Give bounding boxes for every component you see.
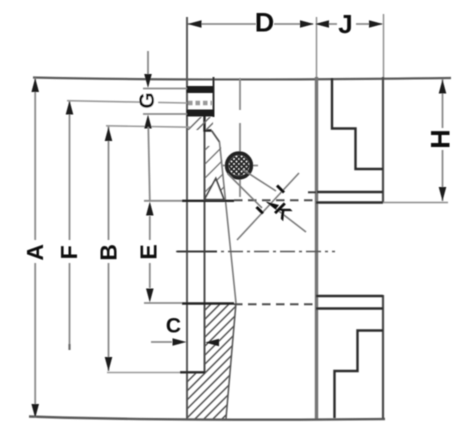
B top tick xyxy=(106,126,190,127)
socket horizontal centerline xyxy=(221,165,258,167)
C right arrow (pointing left at inner face) xyxy=(205,339,219,347)
flange back face xyxy=(186,17,188,419)
B bottom arrow xyxy=(105,357,113,371)
svg-text:F: F xyxy=(56,245,82,259)
jaw outer face lower xyxy=(382,295,384,419)
lower bore slant boundary xyxy=(226,303,236,419)
flange hatch small under boss xyxy=(182,96,222,154)
boss thread dashes xyxy=(188,101,212,106)
H dimension line xyxy=(442,79,444,128)
svg-text:G: G xyxy=(136,92,159,108)
C approach line left xyxy=(151,341,172,343)
J dimension line xyxy=(316,23,337,25)
bottom jaw step profile xyxy=(335,331,384,419)
svg-text:C: C xyxy=(166,315,181,338)
G top arrow (outside, pointing down) xyxy=(144,74,152,88)
socket circle xyxy=(227,153,252,178)
D left arrow xyxy=(188,20,202,28)
F top arrow xyxy=(66,101,74,115)
body front face xyxy=(315,77,318,419)
G bottom tick xyxy=(143,113,187,115)
body front face extension (top) xyxy=(316,17,318,78)
chamfer diagonal xyxy=(212,131,220,143)
bottom jaw base lower line xyxy=(316,307,383,309)
boss front face xyxy=(213,77,215,117)
svg-text:D: D xyxy=(255,8,275,38)
horizontal centerline xyxy=(176,251,335,253)
F dimension line xyxy=(69,101,71,241)
socket vertical centerline xyxy=(239,78,241,110)
boss bar upper xyxy=(187,86,214,93)
flange hatch lower section xyxy=(180,232,256,446)
pinion bevel triangle xyxy=(205,179,225,200)
A top arrow xyxy=(31,78,39,92)
hidden line lower dashed part xyxy=(234,303,315,305)
hidden line lower solid part xyxy=(144,302,182,304)
K dark tick on diagonal upper xyxy=(277,186,284,193)
top jaw base line left stub xyxy=(308,191,316,193)
top jaw base lower line / H bottom tick xyxy=(316,201,383,204)
E bottom arrow (pointing down) xyxy=(146,289,154,303)
step corner under boss xyxy=(205,117,212,131)
D right arrow xyxy=(300,20,314,28)
svg-text:J: J xyxy=(338,9,352,39)
jaw outer face extension (top) xyxy=(383,14,385,78)
flange hatch upper sliver xyxy=(195,115,240,216)
svg-text:B: B xyxy=(96,244,122,261)
B dimension line xyxy=(108,127,110,241)
hidden line upper solid part xyxy=(144,200,182,202)
svg-text:E: E xyxy=(136,244,162,259)
K dimension diagonal line xyxy=(237,173,299,240)
J right arrow xyxy=(369,20,383,28)
A dimension line xyxy=(34,78,36,240)
A bottom arrow xyxy=(31,404,39,418)
boss bar lower xyxy=(187,110,215,117)
H bottom arrow xyxy=(439,187,447,201)
K tangent line upper xyxy=(243,170,277,192)
K leader line lower continuation xyxy=(267,202,306,232)
B top arrow xyxy=(105,127,113,141)
svg-text:A: A xyxy=(22,244,48,261)
K dark tick on diagonal lower xyxy=(257,207,264,214)
H top arrow xyxy=(439,80,447,94)
top jaw base upper line xyxy=(317,191,383,193)
F line end tip xyxy=(68,344,70,350)
G top tick xyxy=(143,88,187,90)
E top arrow (pointing up) xyxy=(146,202,154,216)
E dimension line xyxy=(149,216,151,240)
B bottom tick xyxy=(107,372,180,374)
J left arrow xyxy=(315,20,329,28)
svg-text:H: H xyxy=(426,129,456,149)
C left arrow (pointing right at back face) xyxy=(173,338,187,346)
flange inner vertical xyxy=(204,131,206,373)
label G xyxy=(136,92,159,109)
bottom jaw base upper line xyxy=(316,295,383,298)
bore slant line xyxy=(220,142,237,303)
hidden line upper dashed part xyxy=(234,199,315,201)
jaw outer face upper xyxy=(382,77,384,203)
socket crosshatch xyxy=(221,124,257,205)
G dimension line above xyxy=(147,51,149,75)
D dimension line xyxy=(188,23,256,25)
K tangent line lower xyxy=(228,174,263,209)
body top edge / A and H top tick line xyxy=(33,78,451,80)
G bottom arrow (outside, pointing up) xyxy=(144,115,152,129)
G line below arrow continuing to E xyxy=(148,127,150,200)
top jaw step profile xyxy=(332,78,383,169)
body bottom edge / A bottom tick line xyxy=(29,417,385,420)
K arrow xyxy=(266,202,280,210)
F top tick xyxy=(67,101,187,103)
